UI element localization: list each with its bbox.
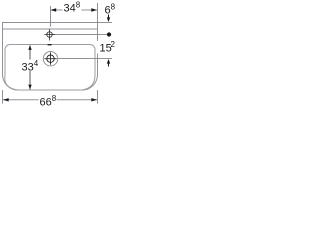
extension line x=50 above basin (50, 6, 52, 27)
arrow down 6'8 with tail (108, 15, 110, 19)
svg-text:8: 8 (111, 3, 116, 12)
tap hole symbol (47, 32, 52, 37)
svg-text:66: 66 (40, 97, 52, 109)
halo 66'8 (39, 95, 57, 107)
dimension line 34'8 (51, 9, 98, 11)
svg-text:34: 34 (64, 3, 76, 15)
drain outer circle (43, 52, 57, 66)
tap hole centre line to right (52, 34, 111, 36)
drain inner circle with cross (47, 55, 54, 62)
svg-text:4: 4 (34, 59, 39, 68)
arrow up 33'4 (28, 45, 31, 50)
extension line right of top edge (98, 22, 113, 24)
halo 15'2 (97, 41, 117, 54)
extension line x=97.5 above basin and below (97, 3, 99, 23)
halo 33'4 (21, 60, 39, 72)
arrow up 15'2 with tail (107, 59, 110, 64)
arrow left 66'8 (3, 98, 9, 101)
washbasin inner bowl outline (5, 45, 95, 91)
arrow right 66'8 (91, 98, 97, 101)
washbasin outer outline (3, 23, 98, 91)
dot terminator 15'2 top (107, 32, 111, 36)
svg-text:8: 8 (76, 1, 81, 10)
arrow left of 34'8 (51, 8, 57, 11)
dimension tail 33'4 (29, 46, 31, 90)
svg-text:8: 8 (52, 94, 57, 103)
arrow down 33'4 (28, 85, 31, 90)
tap ledge line (3, 28, 98, 30)
svg-text:33: 33 (22, 62, 34, 74)
extension line x=2.5 below basin (2, 90, 4, 104)
drain centre line to right (58, 58, 112, 60)
halo 34'8 (63, 1, 82, 13)
arrow right of 34'8 (91, 8, 97, 11)
dimension line 66'8 (3, 99, 97, 101)
svg-text:2: 2 (111, 40, 116, 49)
centre dash on bowl back edge (48, 44, 52, 45)
